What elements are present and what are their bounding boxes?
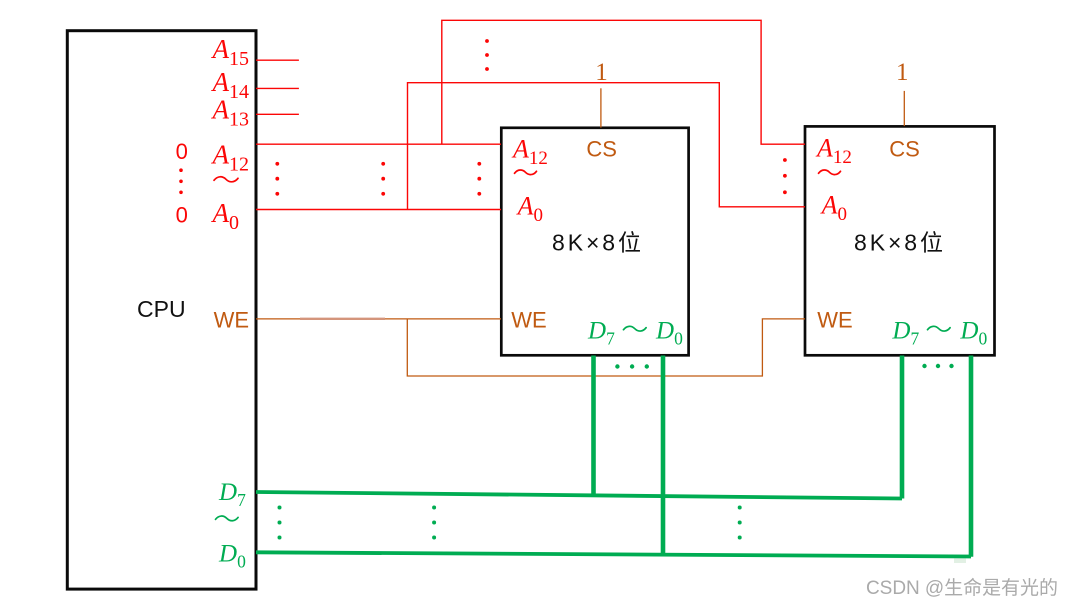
svg-text:WE: WE <box>214 308 249 333</box>
svg-text:D7: D7 <box>891 318 919 349</box>
svg-text:1: 1 <box>595 59 608 86</box>
svg-text:CPU: CPU <box>137 296 186 322</box>
svg-text:WE: WE <box>817 308 852 333</box>
svg-text:A12: A12 <box>511 135 548 170</box>
svg-text:CS: CS <box>889 137 920 162</box>
svg-text:A0: A0 <box>516 192 543 227</box>
svg-text:D0: D0 <box>218 541 246 572</box>
svg-text:A12: A12 <box>815 134 852 169</box>
svg-text:D7: D7 <box>587 318 615 349</box>
svg-text:A12: A12 <box>211 139 250 175</box>
svg-text:CS: CS <box>586 137 617 162</box>
svg-text:WE: WE <box>511 308 546 333</box>
svg-text:1: 1 <box>896 59 909 86</box>
svg-text:A15: A15 <box>211 34 250 70</box>
svg-text:A0: A0 <box>820 191 847 226</box>
svg-text:CSDN @生命是有光的: CSDN @生命是有光的 <box>866 577 1058 599</box>
svg-text:A0: A0 <box>211 198 240 234</box>
svg-text:D0: D0 <box>959 318 987 349</box>
svg-text:8K×8位: 8K×8位 <box>552 230 641 256</box>
svg-text:8K×8位: 8K×8位 <box>854 230 943 256</box>
svg-text:0: 0 <box>176 139 188 164</box>
svg-text:D0: D0 <box>655 318 683 349</box>
svg-text:D7: D7 <box>218 479 246 510</box>
svg-text:0: 0 <box>176 202 188 227</box>
